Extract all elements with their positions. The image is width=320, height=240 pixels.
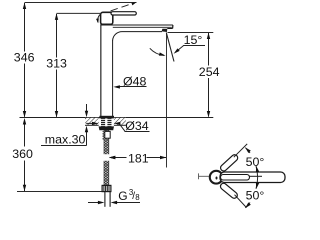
svg-text:15°: 15° (184, 33, 203, 47)
countertop cross-section left (hatched) (85, 118, 99, 126)
upper 50 deg arc with arrow (245, 148, 250, 153)
svg-text:360: 360 (12, 147, 33, 161)
raised lever phantom line (111, 3, 134, 11)
water stream line 15 deg (166, 33, 174, 62)
top view: lever rotated up 50 deg (219, 153, 239, 172)
hole diameter arrows (O34) (86, 122, 94, 124)
dimension 313 (56, 14, 58, 117)
dimension 360 (24, 120, 26, 192)
extension line top of body (313) (57, 12, 101, 14)
top view: center dot (216, 177, 218, 180)
extension line bottom of hose fitting (360) (17, 191, 104, 193)
lever motion arc at left of block (98, 14, 101, 22)
svg-text:max.30: max.30 (45, 133, 86, 147)
svg-text:50°: 50° (246, 155, 265, 169)
lower 50 deg arc with arrow (245, 203, 250, 208)
dimension 181 (114, 157, 167, 159)
angle arc ticks on lever (256, 166, 258, 189)
countertop surface line (20, 117, 214, 119)
threaded shank through counter (101, 118, 112, 126)
dimension 346 (24, 3, 26, 117)
svg-text:313: 313 (46, 57, 67, 71)
dimension 254 (208, 33, 210, 117)
faucet body and spout outline (100, 24, 102, 116)
svg-text:G: G (118, 189, 127, 203)
extension line spout outlet axis (181) (166, 33, 168, 168)
hex fitting (102, 185, 111, 191)
svg-text:254: 254 (199, 65, 220, 79)
top view: body circle (210, 171, 223, 184)
extension line top of handle (346) (25, 2, 137, 4)
extension line lower lever (235, 195, 247, 208)
countertop cross-section right (hatched) (114, 118, 126, 126)
extension line at spout outlet level (168, 32, 214, 34)
mounting nut (99, 126, 114, 130)
15 deg angle arc (150, 48, 164, 55)
top view: center line stub left (199, 173, 210, 179)
spout aerator outlet (162, 29, 168, 32)
base flange on countertop (99, 116, 114, 119)
svg-text:346: 346 (14, 51, 35, 65)
lever handle (side view) (111, 12, 136, 15)
G3/8 threaded tube (105, 192, 110, 207)
top view: lever inner detail (221, 175, 250, 181)
svg-text:50°: 50° (246, 189, 265, 203)
181 left arrow over hose gap (112, 157, 114, 159)
top view: lever horizontal (220, 172, 285, 183)
top view: lever rotated down 50 deg (219, 182, 238, 200)
extension line upper lever (234, 144, 247, 157)
G3/8 thread diameter arrows (88, 202, 140, 204)
15 deg label leader (176, 45, 184, 51)
svg-text:8: 8 (135, 193, 140, 202)
hose crimp sleeve (105, 131, 110, 138)
flexible hose (braided) (103, 130, 110, 185)
svg-text:181: 181 (128, 151, 149, 165)
cartridge housing block (101, 12, 113, 24)
